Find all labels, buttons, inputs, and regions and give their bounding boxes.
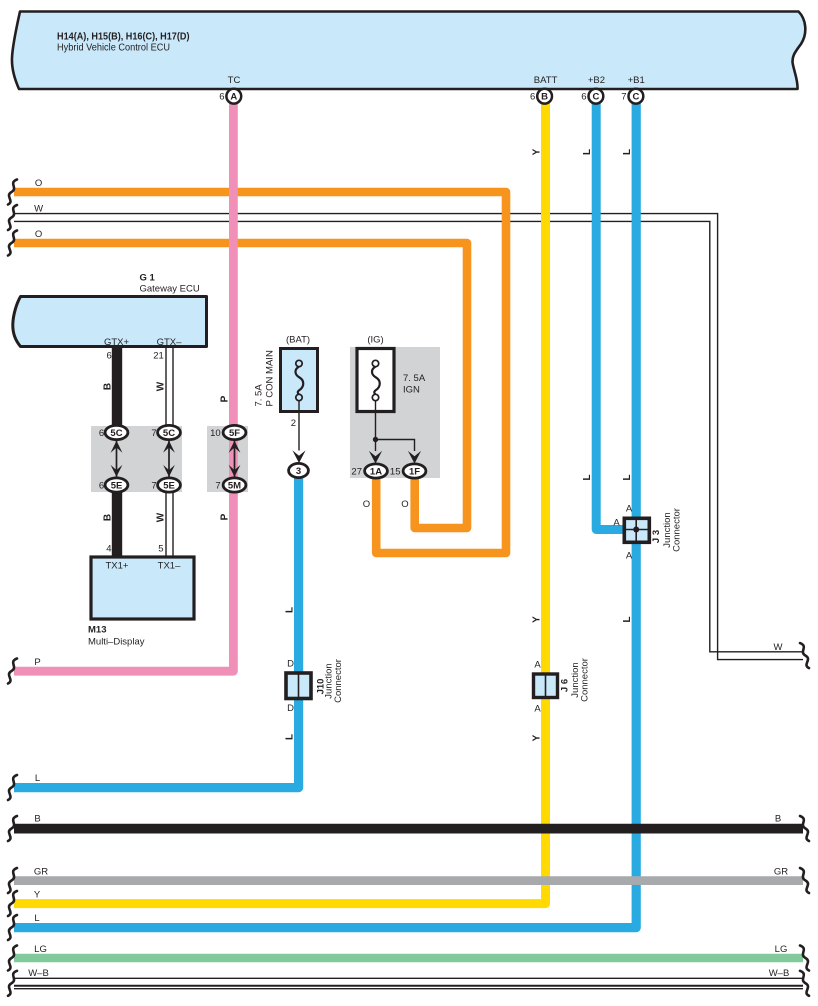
wire L blue +B1 to lower left xyxy=(14,101,636,928)
svg-text:O: O xyxy=(35,178,42,189)
svg-text:A: A xyxy=(626,551,633,562)
svg-text:7: 7 xyxy=(151,428,156,439)
svg-text:L: L xyxy=(285,607,296,613)
svg-text:10: 10 xyxy=(210,428,221,439)
wire Y yellow BATT to lower left xyxy=(14,101,546,904)
svg-text:7. 5A: 7. 5A xyxy=(254,384,265,407)
connector oval 5E (white wire) xyxy=(158,478,181,492)
svg-text:W–B: W–B xyxy=(28,968,49,979)
connector oval 5C (white wire) xyxy=(158,425,181,439)
connector oval 5C (black wire) xyxy=(105,425,128,439)
gray panel IG fuse area xyxy=(350,347,440,478)
svg-text:15: 15 xyxy=(390,467,401,478)
svg-text:Y: Y xyxy=(532,734,543,741)
svg-text:L: L xyxy=(285,734,296,740)
wire L blue +B2 to J3 xyxy=(596,101,628,530)
svg-text:5C: 5C xyxy=(163,428,175,439)
svg-text:BATT: BATT xyxy=(534,75,558,86)
svg-text:5E: 5E xyxy=(163,481,175,492)
svg-text:L: L xyxy=(622,149,633,155)
wire B black bus xyxy=(14,824,803,834)
svg-text:6: 6 xyxy=(99,428,104,439)
junction connector J3 xyxy=(624,518,649,542)
svg-text:GTX–: GTX– xyxy=(157,337,183,348)
wire O orange from ECU row1 to 1A xyxy=(14,192,506,553)
svg-text:L: L xyxy=(622,616,633,622)
M13 Multi-Display box xyxy=(91,557,194,619)
connector oval 3 xyxy=(289,463,309,477)
svg-text:7: 7 xyxy=(151,481,156,492)
svg-text:W: W xyxy=(34,204,43,215)
svg-text:2: 2 xyxy=(291,418,296,429)
connector oval 5E (black wire) xyxy=(105,478,128,492)
svg-text:27: 27 xyxy=(351,467,362,478)
svg-text:1A: 1A xyxy=(370,467,382,478)
gray connector block 5F/5M xyxy=(207,426,248,492)
svg-text:B: B xyxy=(34,814,40,825)
wire P pink from TC xyxy=(14,101,233,671)
break symbols right xyxy=(800,643,809,668)
svg-text:5C: 5C xyxy=(110,428,122,439)
wire B black GTX+ vertical xyxy=(112,348,122,427)
svg-text:GTX+: GTX+ xyxy=(104,337,130,348)
rotated wire color labels xyxy=(102,383,113,390)
svg-text:(IG): (IG) xyxy=(367,335,383,346)
svg-text:G 1: G 1 xyxy=(140,273,156,284)
svg-text:O: O xyxy=(35,229,42,240)
svg-text:D: D xyxy=(287,659,294,670)
svg-text:Hybrid Vehicle Control ECU: Hybrid Vehicle Control ECU xyxy=(57,42,170,54)
wire W white (outer line) xyxy=(14,214,803,660)
svg-text:6: 6 xyxy=(581,92,586,103)
svg-text:LG: LG xyxy=(775,944,788,955)
svg-text:LG: LG xyxy=(34,944,47,955)
svg-text:P: P xyxy=(220,513,231,520)
junction connector J6 xyxy=(534,674,558,698)
svg-text:Connector: Connector xyxy=(672,508,683,552)
svg-text:3: 3 xyxy=(296,466,301,477)
svg-text:+B1: +B1 xyxy=(628,75,645,86)
svg-text:A: A xyxy=(626,504,633,515)
wire W white GTX- vertical xyxy=(166,348,173,557)
svg-text:6: 6 xyxy=(107,351,112,362)
svg-text:C: C xyxy=(592,92,599,103)
svg-text:Y: Y xyxy=(532,148,543,155)
gray connector block 5C/5E xyxy=(91,426,182,492)
connector oval 5M (pink wire) xyxy=(223,478,246,492)
svg-text:P: P xyxy=(34,657,40,668)
svg-text:J 3: J 3 xyxy=(651,530,662,543)
svg-text:Connector: Connector xyxy=(580,658,591,702)
svg-text:C: C xyxy=(632,92,639,103)
svg-text:Multi–Display: Multi–Display xyxy=(88,637,145,648)
wire O orange from ECU row2 to 1F xyxy=(14,243,467,528)
svg-text:W: W xyxy=(156,381,167,391)
connector 5C/5E arrows xyxy=(117,440,235,479)
svg-text:6: 6 xyxy=(530,92,535,103)
svg-text:A: A xyxy=(613,518,620,529)
svg-text:L: L xyxy=(34,913,39,924)
connector oval 1F xyxy=(403,464,426,478)
svg-text:TX1–: TX1– xyxy=(158,561,181,572)
svg-text:P CON MAIN: P CON MAIN xyxy=(265,350,276,406)
svg-text:Y: Y xyxy=(532,616,543,623)
svg-text:6: 6 xyxy=(219,92,224,103)
svg-text:GR: GR xyxy=(774,866,788,877)
svg-text:Gateway ECU: Gateway ECU xyxy=(140,284,200,295)
svg-text:A: A xyxy=(534,660,541,671)
svg-text:7: 7 xyxy=(621,92,626,103)
svg-text:5F: 5F xyxy=(229,428,240,439)
svg-text:O: O xyxy=(363,499,370,510)
wire W white (inner line) xyxy=(14,221,803,651)
svg-text:TX1+: TX1+ xyxy=(106,561,129,572)
svg-text:W–B: W–B xyxy=(769,968,790,979)
svg-text:D: D xyxy=(287,703,294,714)
svg-text:A: A xyxy=(230,92,237,103)
svg-text:6: 6 xyxy=(99,481,104,492)
connector oval 1A xyxy=(365,464,388,478)
svg-text:W: W xyxy=(774,642,783,653)
svg-text:7: 7 xyxy=(215,481,220,492)
wire W-B bus (3 lines) xyxy=(14,977,803,979)
svg-text:TC: TC xyxy=(228,75,241,86)
svg-text:L: L xyxy=(582,474,593,480)
svg-text:B: B xyxy=(775,814,781,825)
svg-text:IGN: IGN xyxy=(403,385,420,396)
junction connector J10 xyxy=(286,673,311,699)
wire L blue from fuse oval 3 through J10 xyxy=(14,475,299,788)
svg-text:M13: M13 xyxy=(88,625,106,636)
svg-text:(BAT): (BAT) xyxy=(286,335,310,346)
svg-text:5: 5 xyxy=(158,544,163,555)
svg-text:5M: 5M xyxy=(228,481,241,492)
svg-text:21: 21 xyxy=(153,351,164,362)
svg-text:B: B xyxy=(541,92,548,103)
svg-text:J 6: J 6 xyxy=(560,679,571,692)
svg-text:B: B xyxy=(102,383,113,390)
connector oval 5F (pink wire) xyxy=(223,425,246,439)
svg-text:4: 4 xyxy=(106,544,111,555)
svg-text:W: W xyxy=(156,512,167,522)
ECU banner xyxy=(12,12,805,90)
svg-text:+B2: +B2 xyxy=(588,75,605,86)
wire LG light green bus xyxy=(14,954,803,963)
svg-text:Connector: Connector xyxy=(333,659,344,703)
node junction dot xyxy=(373,437,378,442)
svg-text:L: L xyxy=(35,773,40,784)
svg-text:B: B xyxy=(102,514,113,521)
svg-text:L: L xyxy=(622,474,633,480)
svg-text:GR: GR xyxy=(34,866,48,877)
svg-text:O: O xyxy=(401,499,408,510)
wire GR gray bus xyxy=(14,876,803,885)
svg-text:L: L xyxy=(582,149,593,155)
svg-text:5E: 5E xyxy=(111,481,123,492)
svg-text:P: P xyxy=(220,395,231,402)
svg-text:7. 5A: 7. 5A xyxy=(403,373,426,384)
svg-text:A: A xyxy=(534,704,541,715)
break symbols left xyxy=(8,180,17,205)
svg-text:Y: Y xyxy=(34,889,41,900)
svg-text:1F: 1F xyxy=(409,467,420,478)
